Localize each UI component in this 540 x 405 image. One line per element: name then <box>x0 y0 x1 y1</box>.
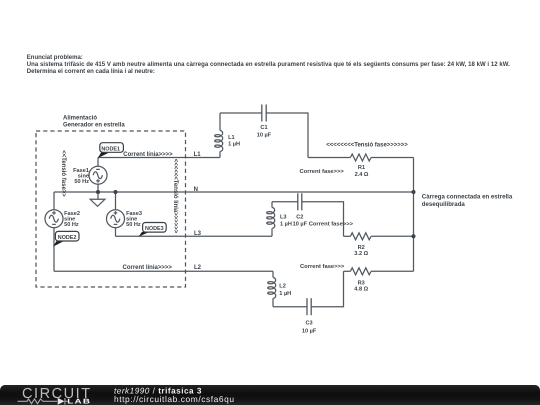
junction dot: Fase3 on N <box>114 190 118 194</box>
svg-text:Corrent línia>>>>: Corrent línia>>>> <box>123 265 173 271</box>
svg-text:R1: R1 <box>358 165 365 171</box>
svg-text:Corrent fase>>>: Corrent fase>>> <box>300 264 345 270</box>
wire Fase1 bottom <box>97 184 99 192</box>
svg-text:NODE3: NODE3 <box>145 226 164 232</box>
junction dot: Fase1/ground on N <box>96 190 100 194</box>
svg-text:10 µF: 10 µF <box>293 222 308 228</box>
svg-text:L2: L2 <box>194 265 202 271</box>
svg-text:<<Tensió fase>>: <<Tensió fase>> <box>60 150 66 197</box>
svg-text:Determina el corrent en cada l: Determina el corrent en cada línia i al … <box>27 69 155 75</box>
voltage source Fase3 (V3) <box>107 210 125 228</box>
wire L1 line from generator <box>98 157 220 159</box>
capacitor C1 <box>262 105 266 122</box>
svg-text:C1: C1 <box>260 125 267 131</box>
junction dot: R2 at right bus <box>412 234 416 238</box>
wire R1 row right of C1 loop <box>308 157 350 159</box>
node flag NODE3 <box>139 223 167 237</box>
junction dot: N at right bus <box>412 190 416 194</box>
footer bar <box>0 385 540 405</box>
logo resistor-diode line <box>18 398 68 405</box>
wire Fase1 top <box>97 158 99 167</box>
svg-text:1 µH: 1 µH <box>228 142 240 148</box>
svg-text:10 µF: 10 µF <box>257 132 272 138</box>
svg-text:3.2 Ω: 3.2 Ω <box>354 251 368 257</box>
svg-text:2.4 Ω: 2.4 Ω <box>355 172 369 178</box>
svg-text:http://circuitlab.com/csfa6qu: http://circuitlab.com/csfa6qu <box>114 393 235 403</box>
svg-text:<<<<<<<<Tensió fase>>>>>>: <<<<<<<<Tensió fase>>>>>> <box>326 143 408 149</box>
svg-text:Corrent línia>>>>: Corrent línia>>>> <box>123 152 173 158</box>
wire Fase3 top <box>115 192 117 210</box>
svg-text:LAB: LAB <box>67 398 91 405</box>
inductor L1 <box>215 130 223 151</box>
resistor R2 <box>350 233 371 240</box>
voltage source Fase2 (V2) <box>45 210 63 228</box>
wire C3 branch <box>272 271 274 277</box>
capacitor C2 <box>298 193 302 210</box>
svg-text:Corrent fase>>>: Corrent fase>>> <box>300 169 345 175</box>
svg-text:Generador en estrella: Generador en estrella <box>63 123 125 129</box>
svg-text:L3: L3 <box>194 231 202 237</box>
wire Fase2 top <box>53 192 55 210</box>
svg-text:NODE1: NODE1 <box>101 146 120 152</box>
wire R2 row <box>344 235 351 237</box>
svg-text:50 Hz: 50 Hz <box>74 179 89 185</box>
svg-text:50 Hz: 50 Hz <box>126 222 141 228</box>
svg-text:Alimentació: Alimentació <box>63 116 97 122</box>
dashed generator box <box>36 131 186 287</box>
wire right bus vertical <box>413 158 415 272</box>
wire C1 loop top <box>219 151 221 157</box>
svg-text:1 µH: 1 µH <box>280 222 292 228</box>
resistor R3 <box>350 268 371 275</box>
capacitor C3 <box>307 298 311 315</box>
svg-text:Corrent fase>>>: Corrent fase>>> <box>309 222 354 228</box>
wire C2 branch <box>271 228 273 236</box>
wire R3 row <box>344 270 351 272</box>
svg-text:C3: C3 <box>306 321 313 327</box>
svg-text:10 µF: 10 µF <box>302 328 317 334</box>
wire L3 line <box>116 235 273 237</box>
node flag NODE1 <box>98 143 124 158</box>
svg-text:Càrrega connectada en estrella: Càrrega connectada en estrella <box>422 194 513 201</box>
svg-text:Una sistema trifàsic de 415 V: Una sistema trifàsic de 415 V amb neutre… <box>27 62 510 68</box>
svg-text:L3: L3 <box>280 215 287 221</box>
svg-text:C2: C2 <box>296 215 303 221</box>
wire Fase2 bottom <box>53 228 55 271</box>
inductor L3 <box>267 207 275 228</box>
wire L2 line <box>54 270 273 272</box>
ground <box>90 192 105 206</box>
wire Fase3 bottom <box>115 228 117 237</box>
svg-text:50 Hz: 50 Hz <box>64 222 79 228</box>
wire N line <box>54 191 414 193</box>
inductor L2 <box>268 277 276 298</box>
svg-text:<<<<<<Tensió línia>>>>>>: <<<<<<Tensió línia>>>>>> <box>172 159 178 234</box>
svg-text:1 µH: 1 µH <box>279 291 291 297</box>
svg-text:NODE2: NODE2 <box>58 235 77 241</box>
resistor R1 <box>350 154 371 161</box>
svg-text:4.8 Ω: 4.8 Ω <box>354 286 368 292</box>
svg-text:L1: L1 <box>194 152 202 158</box>
svg-text:Enunciat problema:: Enunciat problema: <box>27 55 83 61</box>
svg-text:N: N <box>194 187 198 193</box>
node flag NODE2 <box>53 231 79 246</box>
svg-text:L2: L2 <box>279 284 286 290</box>
svg-text:desequilibrada: desequilibrada <box>422 201 466 208</box>
svg-text:L1: L1 <box>228 135 235 141</box>
logo diode triangle <box>58 397 65 404</box>
voltage source Fase1 (V1) <box>89 166 107 184</box>
